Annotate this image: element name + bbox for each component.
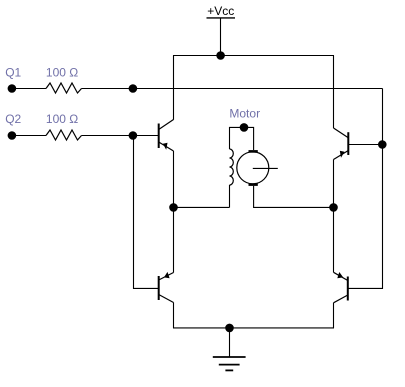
junction Q2 wire joint [129, 131, 138, 140]
wire left node to coil bottom [174, 206, 230, 208]
node Q2 input terminal [8, 131, 17, 140]
wire Q1 line across to far right corner [82, 88, 383, 90]
node Q1 input terminal [8, 84, 17, 93]
transistor top-left NPN [159, 120, 174, 152]
wire left trunk upper (top rail to top-left collector) [173, 56, 175, 120]
svg-text:100 Ω: 100 Ω [46, 112, 78, 126]
wire Q2 terminal to resistor [12, 135, 46, 137]
junction Vcc tap on top rail [216, 51, 225, 60]
svg-text:Q1: Q1 [5, 65, 21, 79]
wire motor bottom to right node [254, 186, 334, 208]
wire coil bottom to left node wire [229, 185, 231, 207]
svg-text:+Vcc: +Vcc [207, 4, 234, 18]
transistor bottom-left PNP [159, 272, 174, 303]
wire left trunk lower (bottom-left collector to bottom rail) [173, 303, 175, 328]
transistor bottom-right PNP [334, 272, 348, 303]
wire bottom rail (ground net) [173, 327, 334, 329]
svg-text:Motor: Motor [229, 106, 260, 120]
resistor 100 ohm (Q1 input) [46, 83, 82, 93]
wire top-right base wire [348, 144, 382, 146]
svg-text:100 Ω: 100 Ω [46, 65, 78, 79]
junction left motor node [169, 203, 178, 212]
junction right base junction [378, 140, 387, 149]
power symbol +Vcc [207, 4, 236, 56]
inductor motor winding [230, 149, 234, 185]
junction ground tap on bottom rail [225, 324, 234, 333]
ground symbol [213, 328, 246, 371]
wire right trunk upper (top rail to top-right collector) [333, 56, 335, 129]
junction Q1 wire joint [129, 84, 138, 93]
wire motor top link (coil top to motor terminal) [230, 127, 254, 150]
wire Q1 branch down right side to bottom-right base [348, 89, 383, 289]
wire Q2 branch down to bottom-left base [134, 136, 159, 289]
wire top rail (+Vcc net) [173, 55, 334, 57]
transistor top-right NPN [334, 128, 349, 160]
resistor 100 ohm (Q2 input) [46, 130, 82, 140]
svg-text:Q2: Q2 [5, 112, 21, 126]
junction motor top wire joint [240, 123, 249, 132]
motor M (circle with brushes and shaft) [237, 150, 278, 186]
wire left trunk mid (top-left emitter to bottom-left emitter) [173, 151, 175, 273]
wire Q2 resistor to top-left base [82, 135, 159, 137]
wire right trunk mid (top-right emitter to bottom-right emitter) [333, 160, 335, 273]
wire right trunk lower (bottom-right collector to bottom rail) [333, 303, 335, 328]
junction right motor node [329, 203, 338, 212]
wire Q1 terminal to resistor [12, 88, 46, 90]
